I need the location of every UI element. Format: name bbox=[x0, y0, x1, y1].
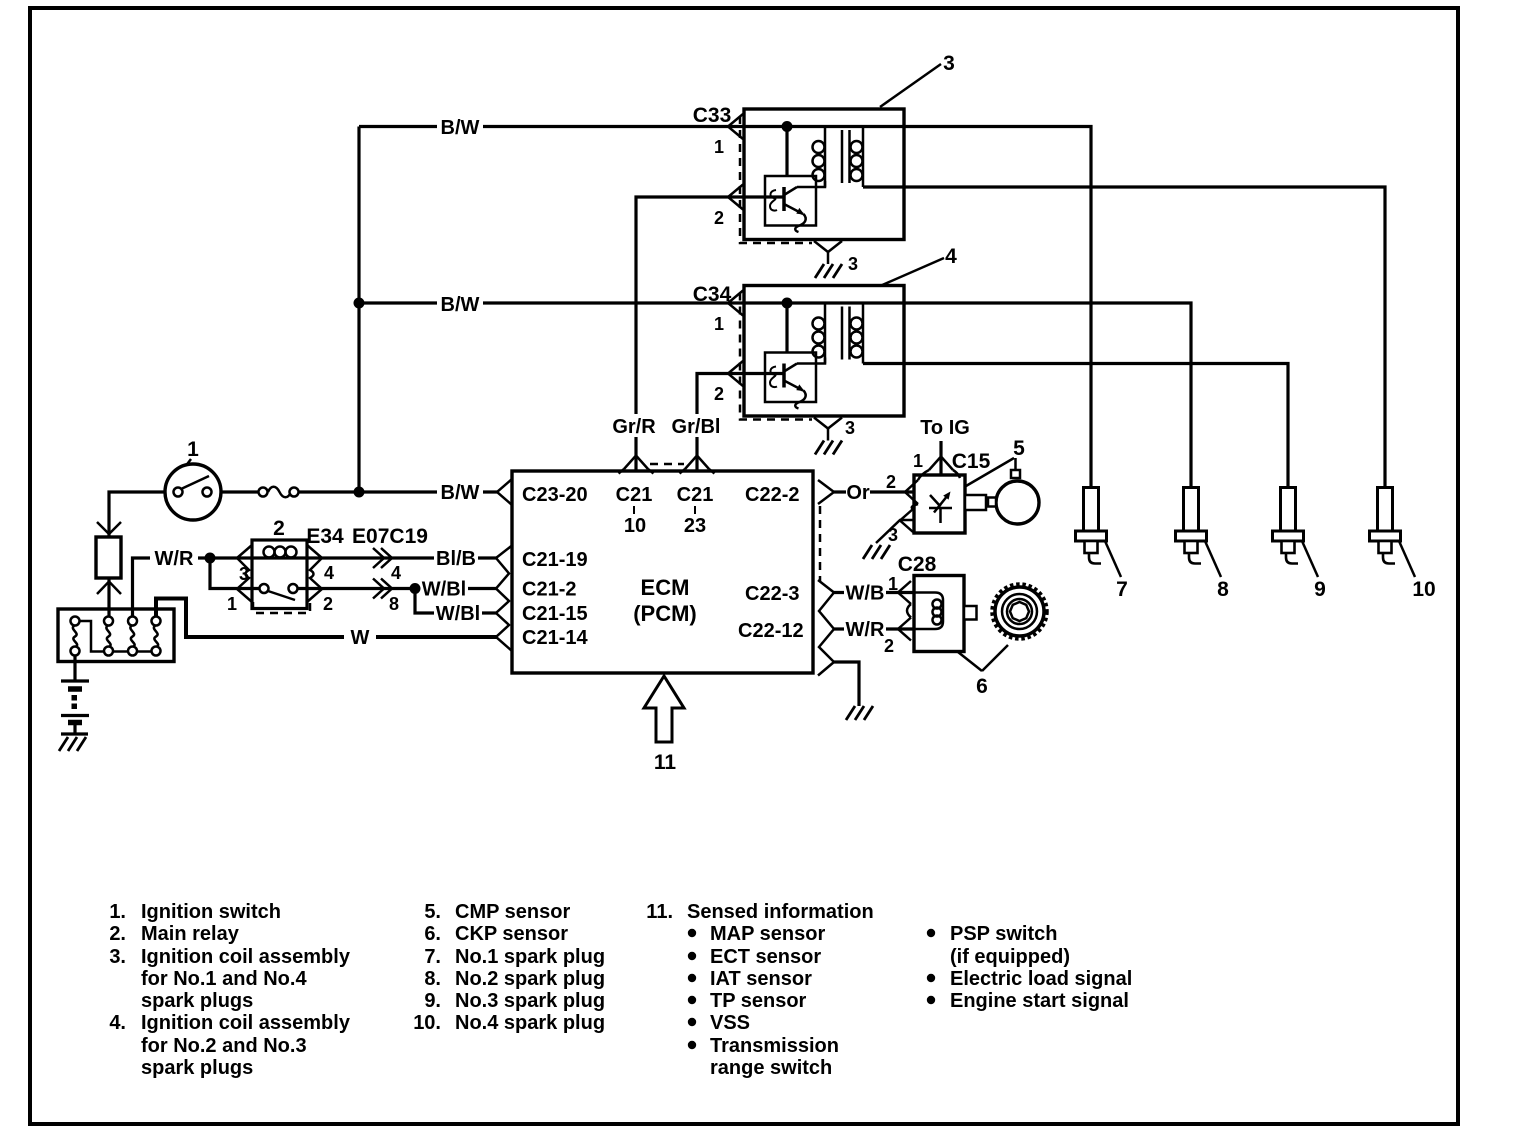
relay pin number 3 bbox=[239, 564, 249, 584]
junction block internal links bbox=[79, 621, 152, 652]
svg-text:3: 3 bbox=[943, 52, 955, 75]
C15 pin number 1 bbox=[913, 451, 923, 471]
junction block contact pair 2 bbox=[104, 617, 113, 656]
wire W: junction block to ECM C21-14 bbox=[156, 599, 497, 638]
svg-text:E07C19: E07C19 bbox=[352, 525, 428, 548]
svg-text:3: 3 bbox=[845, 418, 855, 438]
svg-text:4: 4 bbox=[391, 563, 401, 583]
node label Gr/R bbox=[610, 414, 658, 438]
svg-text:7.: 7. bbox=[424, 946, 441, 968]
CMP sensor connector box C15 bbox=[914, 475, 965, 533]
transistor Q1 (igniter) bbox=[765, 176, 816, 232]
CKP pickup coil L5 bbox=[914, 593, 943, 630]
junction dot Q2 supply bbox=[782, 298, 793, 353]
ignition switch callout number 1 bbox=[185, 438, 199, 467]
svg-text:Bl/B: Bl/B bbox=[436, 548, 476, 570]
ECM top dashed connector link bbox=[650, 463, 684, 466]
svg-text:10.: 10. bbox=[413, 1012, 441, 1034]
transformer core bbox=[842, 307, 850, 360]
wire B/W mid: feed to C34 pin1 and on to spark plug 8 bbox=[359, 303, 1191, 488]
ECM top chevron C21-23 bbox=[680, 456, 715, 474]
svg-text:W/Bl: W/Bl bbox=[422, 579, 466, 601]
svg-text:ECT sensor: ECT sensor bbox=[710, 946, 821, 968]
svg-text:C22-12: C22-12 bbox=[738, 620, 804, 642]
transformer core bbox=[842, 130, 850, 183]
svg-text:W/R: W/R bbox=[846, 619, 885, 641]
sensed information arrow 11 bbox=[644, 676, 684, 774]
CMP connector chevron pin 1 bbox=[918, 457, 960, 481]
svg-text:(if equipped): (if equipped) bbox=[950, 946, 1070, 968]
main relay coil bbox=[264, 547, 297, 558]
connector chevron pin 2 bbox=[728, 361, 743, 386]
wire B/W top: battery feed to C33 pin1 and on to spark plug 7 bbox=[359, 127, 1091, 488]
connector chevron pin 2 bbox=[728, 185, 743, 210]
svg-text:B/W: B/W bbox=[441, 482, 480, 504]
svg-text:for No.2 and No.3: for No.2 and No.3 bbox=[141, 1035, 307, 1057]
svg-text:2.: 2. bbox=[109, 923, 126, 945]
wire B/W: fuse to ECM C23-20 bbox=[298, 490, 497, 493]
svg-text:range switch: range switch bbox=[710, 1057, 832, 1079]
wire C34 secondary output to spark plug 9 bbox=[863, 364, 1288, 488]
node label To IG bbox=[920, 417, 970, 439]
svg-text:3: 3 bbox=[848, 254, 858, 274]
junction block contact pair 1 bbox=[71, 617, 80, 656]
transistor Q2 (igniter) bbox=[765, 353, 816, 409]
node label W/Bl (upper) bbox=[420, 577, 468, 601]
svg-text:To IG: To IG bbox=[920, 417, 970, 439]
svg-text:spark plugs: spark plugs bbox=[141, 1057, 253, 1079]
svg-text:2: 2 bbox=[886, 472, 896, 492]
ECM pin label C21-10 bbox=[616, 484, 653, 537]
connector dashed boundary bbox=[740, 116, 812, 243]
svg-text:7: 7 bbox=[1116, 578, 1128, 601]
C33 pin number 1 bbox=[714, 137, 724, 157]
junction dot W/R node bbox=[205, 553, 216, 564]
svg-text:2: 2 bbox=[323, 594, 333, 614]
svg-text:W/Bl: W/Bl bbox=[436, 603, 480, 625]
svg-text:23: 23 bbox=[684, 515, 706, 537]
ignition coil assembly 4 box (C34) bbox=[744, 286, 904, 417]
ECM pin label C22-12 bbox=[738, 620, 804, 642]
primary winding L3 bbox=[813, 303, 826, 364]
wire collector to primary L3 bbox=[797, 358, 825, 364]
wire C33 secondary output to spark plug 10 bbox=[863, 187, 1385, 488]
svg-text:C33: C33 bbox=[693, 104, 732, 127]
svg-text:Transmission: Transmission bbox=[710, 1035, 839, 1057]
ECM (PCM) box U1 bbox=[512, 471, 813, 673]
wire ignition switch to fuse bbox=[221, 490, 259, 493]
svg-text:for No.1 and No.4: for No.1 and No.4 bbox=[141, 968, 307, 990]
svg-text:5: 5 bbox=[1013, 437, 1025, 460]
connector dashed boundary bbox=[740, 293, 812, 420]
ECM pin label C22-2 bbox=[745, 484, 799, 506]
wire W/R: junction block to main relay pin 3, on to ECM C21-19 as Bl/B bbox=[133, 558, 498, 617]
C34 pin number 1 bbox=[714, 314, 724, 334]
CMP sensor tab bbox=[965, 495, 986, 510]
ECM pin label C22-3 bbox=[745, 583, 799, 605]
svg-text:spark plugs: spark plugs bbox=[141, 990, 253, 1012]
svg-text:9.: 9. bbox=[424, 990, 441, 1012]
spark plug 9 bbox=[1273, 488, 1326, 602]
C34 pin number 3 bbox=[845, 418, 855, 438]
connector chevron pin 1 bbox=[728, 291, 743, 316]
svg-text:No.1 spark plug: No.1 spark plug bbox=[455, 946, 605, 968]
svg-text:No.2 spark plug: No.2 spark plug bbox=[455, 968, 605, 990]
CKP connector chevron pin 2 bbox=[898, 604, 911, 641]
svg-text:1: 1 bbox=[714, 314, 724, 334]
node label Gr/Bl bbox=[670, 414, 724, 438]
connector label E07C19 bbox=[352, 525, 428, 548]
inline connector E07C19 chevrons (pin 8) bbox=[373, 579, 392, 599]
ground (ECM right) bbox=[846, 706, 873, 720]
node label B/W (middle wire) bbox=[437, 292, 483, 316]
node label W bbox=[344, 625, 376, 649]
ECM pin label C21-15 bbox=[522, 603, 588, 625]
connector label C34 bbox=[693, 283, 732, 306]
ECM right chevron chain C22-3/C22-12/ground bbox=[818, 580, 834, 676]
svg-text:8.: 8. bbox=[424, 968, 441, 990]
CKP rotor gear bbox=[992, 584, 1047, 639]
junction connector block (bottom left) bbox=[58, 609, 174, 662]
legend text block bbox=[109, 901, 1132, 1079]
CKP sensor tab bbox=[964, 606, 977, 620]
svg-text:9: 9 bbox=[1314, 578, 1326, 601]
ECM title text bbox=[633, 575, 697, 626]
connector label C15 bbox=[952, 450, 991, 473]
junction block contact pair 4 bbox=[152, 617, 161, 656]
primary winding L1 bbox=[813, 127, 826, 188]
svg-text:10: 10 bbox=[1412, 578, 1435, 601]
svg-text:ECM: ECM bbox=[641, 575, 690, 600]
svg-text:11: 11 bbox=[654, 751, 677, 774]
svg-text:C15: C15 bbox=[952, 450, 991, 473]
wire B/W vertical riser bbox=[357, 127, 360, 493]
svg-text:1: 1 bbox=[187, 438, 199, 461]
wire collector to primary L1 bbox=[797, 181, 825, 187]
svg-text:C21-2: C21-2 bbox=[522, 579, 576, 601]
CKP connector chevron pin 1 bbox=[898, 581, 911, 604]
svg-text:C21: C21 bbox=[616, 484, 653, 506]
node label W/Bl (lower) bbox=[434, 602, 482, 625]
wire W/Bl branch to ECM C21-15 bbox=[415, 589, 497, 614]
svg-text:C23-20: C23-20 bbox=[522, 484, 588, 506]
connector label C28 bbox=[898, 553, 937, 576]
wire W/B: ECM C22-3 to CKP sensor C28 pin 1 bbox=[834, 591, 914, 594]
svg-text:Engine start signal: Engine start signal bbox=[950, 990, 1129, 1012]
svg-text:10: 10 bbox=[624, 515, 646, 537]
ECM pin label C21-19 bbox=[522, 549, 588, 571]
ECM right chevron C22-2 bbox=[818, 480, 834, 504]
E07C19 pin number 4 bbox=[391, 563, 401, 583]
svg-text:MAP sensor: MAP sensor bbox=[710, 923, 825, 945]
svg-text:C21-14: C21-14 bbox=[522, 627, 588, 649]
svg-text:W: W bbox=[351, 627, 370, 649]
svg-text:Ignition coil assembly: Ignition coil assembly bbox=[141, 1012, 351, 1034]
svg-text:1: 1 bbox=[714, 137, 724, 157]
ECM pin label C21-2 bbox=[522, 579, 576, 601]
svg-text:1: 1 bbox=[888, 574, 898, 594]
svg-text:Electric load signal: Electric load signal bbox=[950, 968, 1132, 990]
svg-text:C22-2: C22-2 bbox=[745, 484, 799, 506]
svg-text:8: 8 bbox=[389, 594, 399, 614]
ECM pin label C23-20 bbox=[522, 484, 588, 506]
connector chevron pin 1 bbox=[728, 114, 743, 139]
svg-text:Or: Or bbox=[846, 482, 870, 504]
wire W/R branch down to relay pin 1 bbox=[210, 558, 259, 589]
main relay box bbox=[252, 540, 307, 609]
C33 pin number 2 bbox=[714, 208, 724, 228]
svg-text:2: 2 bbox=[884, 636, 894, 656]
svg-text:5.: 5. bbox=[424, 901, 441, 923]
fusible link FL1 bbox=[96, 522, 121, 594]
node label B/W (top wire) bbox=[437, 115, 483, 139]
spark plug 7 bbox=[1076, 488, 1128, 602]
main relay switch contacts bbox=[260, 584, 298, 600]
svg-text:C28: C28 bbox=[898, 553, 937, 576]
svg-text:C22-3: C22-3 bbox=[745, 583, 799, 605]
svg-text:4.: 4. bbox=[109, 1012, 126, 1034]
callout pointer 6 (CKP sensor) bbox=[958, 645, 1008, 698]
ECM connector chevron C23-20 bbox=[497, 479, 512, 505]
wire To IG lead into C15 pin 1 bbox=[939, 441, 942, 475]
relay pin number 1 bbox=[227, 594, 237, 614]
ECM connector chevron chain C21 bbox=[496, 546, 512, 652]
ECM right dashed connector C22 bbox=[819, 506, 822, 581]
svg-text:CMP sensor: CMP sensor bbox=[455, 901, 570, 923]
secondary winding L4 bbox=[851, 303, 864, 364]
svg-text:Ignition coil assembly: Ignition coil assembly bbox=[141, 946, 351, 968]
CKP sensor connector box C28 bbox=[914, 576, 964, 652]
svg-text:3.: 3. bbox=[109, 946, 126, 968]
wire ECM ground lead bbox=[834, 662, 859, 706]
node label W/R (right) bbox=[844, 618, 886, 641]
svg-text:Gr/Bl: Gr/Bl bbox=[672, 416, 721, 438]
connector E34 dashed boundary bbox=[253, 602, 310, 613]
wire Gr/Bl: C34 pin 2 to ECM C21-23 bbox=[697, 374, 784, 472]
CMP connector chevron pin 2 bbox=[905, 480, 918, 504]
ground (Q2 emitter, pin 3) bbox=[814, 418, 842, 455]
svg-text:4: 4 bbox=[324, 563, 334, 583]
node label Bl/B bbox=[434, 546, 478, 570]
svg-text:1: 1 bbox=[227, 594, 237, 614]
svg-text:No.4 spark plug: No.4 spark plug bbox=[455, 1012, 605, 1034]
svg-text:Main relay: Main relay bbox=[141, 923, 240, 945]
wire C15 pin 3 to ground bbox=[876, 520, 914, 543]
svg-text:6: 6 bbox=[976, 675, 988, 698]
junction dot: B/W riser top feed bbox=[354, 487, 365, 498]
fuse F1 bbox=[259, 487, 299, 498]
connector E34 right bracket (pins 4,2) bbox=[307, 545, 322, 602]
svg-text:11.: 11. bbox=[646, 901, 673, 923]
wire ignition switch to fusible link bbox=[109, 492, 165, 617]
svg-text:(PCM): (PCM) bbox=[633, 601, 697, 626]
wire W/R: ECM C22-12 to CKP sensor C28 pin 2 bbox=[834, 627, 914, 630]
svg-text:Sensed information: Sensed information bbox=[687, 901, 874, 923]
svg-text:1: 1 bbox=[913, 451, 923, 471]
svg-text:8: 8 bbox=[1217, 578, 1229, 601]
C15 pin number 2 bbox=[886, 472, 896, 492]
wire Gr/R: C33 pin 2 to ECM C21-10 bbox=[636, 197, 784, 471]
E07C19 pin number 8 bbox=[389, 594, 399, 614]
connector label C33 bbox=[693, 104, 732, 127]
inline connector E07C19 chevrons (pin 4) bbox=[373, 548, 392, 568]
svg-text:2: 2 bbox=[273, 517, 285, 540]
svg-text:TP sensor: TP sensor bbox=[710, 990, 807, 1012]
svg-text:VSS: VSS bbox=[710, 1012, 750, 1034]
callout pointer 3 (coil assembly C33) bbox=[880, 52, 955, 107]
svg-text:3: 3 bbox=[888, 525, 898, 545]
junction dot Q1 supply bbox=[782, 121, 793, 176]
svg-text:1.: 1. bbox=[109, 901, 126, 923]
C28 pin number 2 bbox=[884, 636, 894, 656]
callout pointer 5 and CMP sensor body bbox=[966, 437, 1039, 524]
callout pointer 4 (coil assembly C34) bbox=[880, 245, 957, 286]
relay callout number 2 bbox=[273, 517, 285, 540]
svg-text:PSP switch: PSP switch bbox=[950, 923, 1057, 945]
svg-text:B/W: B/W bbox=[441, 294, 480, 316]
battery BAT1 bbox=[61, 656, 89, 735]
svg-text:C34: C34 bbox=[693, 283, 732, 306]
svg-text:6.: 6. bbox=[424, 923, 441, 945]
ignition switch SW1 bbox=[165, 464, 221, 520]
C28 pin number 1 bbox=[888, 574, 898, 594]
svg-text:No.3 spark plug: No.3 spark plug bbox=[455, 990, 605, 1012]
svg-text:IAT sensor: IAT sensor bbox=[710, 968, 812, 990]
ignition coil assembly 3 box (C33) bbox=[744, 109, 904, 240]
C15 pin number 3 bbox=[888, 525, 898, 545]
relay pin number 4 bbox=[324, 563, 334, 583]
svg-text:Gr/R: Gr/R bbox=[612, 416, 656, 438]
svg-text:4: 4 bbox=[945, 245, 957, 268]
C33 pin number 3 bbox=[848, 254, 858, 274]
relay label E34 bbox=[306, 525, 344, 548]
ground (Q1 emitter, pin 3) bbox=[814, 241, 842, 278]
ECM pin label C21-14 bbox=[522, 627, 588, 649]
wire Or: ECM C22-2 to CMP sensor C15 pin 2 bbox=[834, 490, 914, 493]
svg-text:W/R: W/R bbox=[155, 548, 194, 570]
svg-text:2: 2 bbox=[714, 208, 724, 228]
svg-text:B/W: B/W bbox=[441, 117, 480, 139]
svg-text:Ignition switch: Ignition switch bbox=[141, 901, 281, 923]
ground (battery) bbox=[59, 734, 88, 751]
ground (CMP sensor pin 3) bbox=[863, 545, 890, 559]
spark plug 8 bbox=[1176, 488, 1230, 602]
node label Or bbox=[846, 481, 870, 504]
relay pin number 2 bbox=[323, 594, 333, 614]
node label B/W (ignition feed wire) bbox=[437, 480, 483, 504]
svg-text:W/B: W/B bbox=[846, 583, 885, 605]
svg-text:C21-19: C21-19 bbox=[522, 549, 588, 571]
svg-text:2: 2 bbox=[714, 384, 724, 404]
junction dot: B/W riser mid bbox=[354, 298, 365, 309]
svg-text:C21: C21 bbox=[677, 484, 714, 506]
svg-text:C21-15: C21-15 bbox=[522, 603, 588, 625]
connector E34 left bracket (pins 3,1) bbox=[237, 545, 252, 602]
spark plug 10 bbox=[1370, 488, 1436, 602]
CMP sensor symbol inside C15 bbox=[929, 492, 952, 524]
CMP connector chevron pin 3 bbox=[900, 504, 918, 532]
svg-text:CKP sensor: CKP sensor bbox=[455, 923, 568, 945]
C34 pin number 2 bbox=[714, 384, 724, 404]
ECM pin label C21-23 bbox=[677, 484, 714, 537]
secondary winding L2 bbox=[851, 127, 864, 188]
junction dot W/Bl node bbox=[410, 583, 421, 594]
node label W/R (left) bbox=[150, 546, 198, 570]
svg-text:E34: E34 bbox=[306, 525, 344, 548]
node label W/B bbox=[844, 581, 886, 605]
wire W/Bl: relay pin 2 to ECM C21-2 bbox=[298, 587, 498, 590]
junction block contact pair 3 bbox=[128, 617, 137, 656]
ECM top chevron C21-10 bbox=[619, 456, 654, 474]
